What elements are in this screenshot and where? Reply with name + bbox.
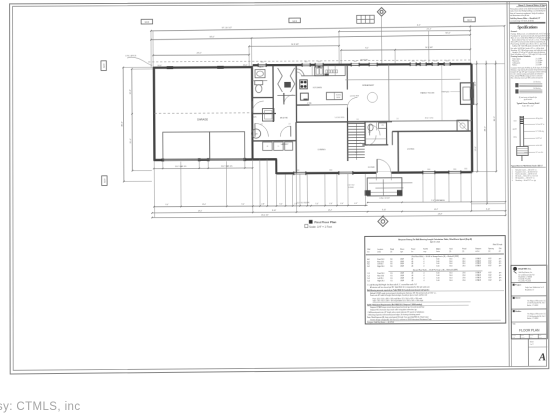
svg-text:6/12: 6/12 (488, 260, 491, 262)
svg-text:50'-0": 50'-0" (445, 33, 451, 35)
svg-text:9'-0": 9'-0" (241, 204, 245, 206)
svg-text:2 x 4 SPF: 2 x 4 SPF (536, 58, 542, 60)
stair west wall (347, 122, 349, 161)
svg-text:yes: yes (499, 263, 502, 265)
svg-text:D-1: D-1 (367, 278, 370, 280)
svg-text:48: 48 (411, 275, 413, 277)
svg-text:21'-4": 21'-4" (130, 138, 132, 143)
svg-text:WJS: WJS (512, 337, 515, 339)
svg-text:Spacing: Spacing (488, 248, 494, 250)
grid tag box (141, 19, 153, 24)
svg-text:16.0: 16.0 (449, 266, 452, 268)
svg-text:yes: yes (499, 272, 502, 274)
first floor plan caption (309, 220, 313, 224)
svg-text:24.0: 24.0 (462, 261, 465, 263)
svg-text:A: A (538, 352, 546, 363)
powder east closet wall (391, 131, 393, 145)
svg-text:21'-1": 21'-1" (427, 29, 432, 31)
svg-text:Panel: Panel (411, 249, 416, 251)
svg-text:14.0: 14.0 (449, 275, 452, 277)
svg-text:14.0: 14.0 (449, 280, 452, 282)
svg-text:4/7/04: 4/7/04 (521, 337, 525, 339)
living corner cabinet (457, 120, 468, 131)
svg-text:D-2: D-2 (367, 280, 370, 282)
svg-text:Reqd: Reqd (390, 249, 394, 251)
powder door arc 2 (370, 125, 381, 136)
svg-text:4'-1": 4'-1" (417, 25, 421, 27)
bottom dimension line second (152, 211, 505, 213)
svg-text:KITCHEN: KITCHEN (313, 87, 322, 89)
svg-text:yes: yes (499, 277, 502, 279)
kitchen family divider stub (346, 65, 348, 90)
kitchen hall wall (296, 104, 309, 106)
top wall windows (258, 64, 266, 66)
svg-text:Scale: 3/4" = 1'-0": Scale: 3/4" = 1'-0" (522, 106, 534, 108)
svg-text:1 of 7: 1 of 7 (530, 344, 534, 346)
svg-text:WSP: WSP (400, 275, 403, 277)
bottom dimension line first (154, 205, 367, 206)
svg-text:2 x 8 SPF: 2 x 8 SPF (536, 64, 542, 66)
counter tile marks (326, 70, 338, 73)
stair east wall (364, 122, 366, 145)
fireplace leader (450, 91, 460, 93)
svg-text:20.0: 20.0 (462, 272, 465, 274)
wall section leaders (524, 117, 535, 119)
svg-text:2 x 10 SPF: 2 x 10 SPF (536, 60, 543, 62)
svg-text:8'-10": 8'-10" (272, 210, 277, 212)
closet arcs hall (347, 97, 357, 107)
svg-text:BREAKFAST: BREAKFAST (362, 84, 375, 87)
kitchen island work desk (326, 92, 342, 99)
svg-text:2-6: 2-6 (289, 123, 291, 125)
svg-text:gyp bd: gyp bd (513, 129, 517, 131)
overhang dimension line (368, 201, 506, 204)
living north wall (392, 130, 472, 132)
dimension line third tier center (249, 45, 339, 48)
svg-text:3050: 3050 (354, 61, 357, 63)
svg-text:9'-0": 9'-0" (165, 204, 169, 206)
title info cells (519, 334, 521, 338)
bath bottom wall (252, 97, 273, 99)
dimension line second tier (151, 35, 470, 40)
dimension line right wing (339, 30, 470, 33)
svg-text:20.0: 20.0 (462, 275, 465, 277)
svg-text:6.5: 6.5 (390, 275, 392, 277)
svg-text:34'-0": 34'-0" (209, 36, 215, 38)
svg-text:10'-2": 10'-2" (475, 81, 477, 86)
svg-text:14'-2": 14'-2" (328, 209, 333, 211)
closet shelf wall (277, 94, 295, 96)
svg-text:6.5: 6.5 (390, 278, 392, 280)
owner block (513, 297, 515, 299)
svg-text:8.0: 8.0 (390, 259, 392, 261)
svg-text:R-19: R-19 (514, 121, 517, 123)
bracing calculation table (365, 236, 506, 324)
kitchen counter (301, 75, 345, 77)
mud room door arc 2 (280, 126, 291, 137)
svg-text:6/12: 6/12 (488, 258, 491, 260)
svg-text:len: len (411, 251, 413, 253)
svg-text:17'-6": 17'-6" (475, 146, 477, 151)
bath shelf line (252, 80, 267, 82)
garage stall rect left (163, 132, 210, 160)
svg-text:C-2: C-2 (367, 275, 370, 277)
pantry door arc (284, 95, 294, 105)
svg-text:36'-0": 36'-0" (121, 121, 123, 127)
house right wall (470, 64, 473, 172)
svg-text:3050: 3050 (412, 60, 415, 62)
svg-text:yes: yes (499, 258, 502, 260)
svg-text:LIN: LIN (381, 125, 383, 127)
hall south wall (252, 112, 276, 114)
breakfast table (367, 92, 377, 102)
marker leader line (381, 16, 383, 64)
svg-text:FOYER: FOYER (368, 167, 375, 169)
left vertical dimension line inner (131, 69, 134, 171)
laundry to front wall jog (275, 159, 277, 174)
svg-text:1.00: 1.00 (436, 263, 439, 265)
hall north wall (348, 121, 392, 123)
svg-text:3050: 3050 (318, 61, 321, 63)
svg-text:34C8: 34C8 (104, 179, 106, 183)
svg-text:Specifications: Specifications (517, 25, 538, 29)
svg-text:y/n: y/n (499, 250, 501, 252)
svg-text:DINING: DINING (318, 149, 326, 151)
laundry tub (262, 109, 274, 122)
svg-text:Brookfield, CT 06804: Brookfield, CT 06804 (518, 276, 532, 278)
svg-text:1.00: 1.00 (436, 258, 439, 260)
svg-text:2 x 8 SPF: 2 x 8 SPF (536, 62, 542, 64)
svg-text:2-6: 2-6 (397, 118, 399, 120)
bottom dimension line third (152, 215, 505, 217)
svg-text:FLOOR PLAN: FLOOR PLAN (519, 328, 540, 332)
project block (513, 284, 515, 286)
svg-text:Wind 110 mph: Wind 110 mph (493, 244, 503, 246)
svg-text:Chk: Chk (499, 248, 502, 250)
right vertical dimension line A (476, 61, 479, 172)
front door opening (376, 172, 391, 174)
svg-text:6'-0 X 6'-8 SLIDER: 6'-0 X 6'-8 SLIDER (297, 202, 311, 204)
refrigerator (300, 93, 308, 100)
column separator line (507, 1, 509, 366)
svg-text:6.5: 6.5 (390, 273, 392, 275)
svg-text:48: 48 (411, 278, 413, 280)
svg-text:6'-2": 6'-2" (354, 203, 358, 205)
svg-text:6'-10": 6'-10" (486, 208, 491, 210)
front stoop (367, 178, 402, 196)
svg-text:Job: Job (539, 335, 541, 337)
svg-text:CL: CL (360, 142, 362, 144)
range (300, 80, 308, 89)
svg-text:14.0: 14.0 (449, 277, 452, 279)
right vertical dimension line B (485, 61, 488, 204)
svg-text:48: 48 (411, 280, 413, 282)
right extension lines (470, 63, 504, 65)
dimension line third tier garage (153, 54, 249, 57)
grid tag box (289, 18, 301, 23)
svg-text:GARAGE: GARAGE (197, 117, 208, 121)
powder fixtures (368, 124, 373, 131)
svg-text:2-8: 2-8 (357, 119, 359, 121)
svg-text:Scale: Scale (530, 335, 533, 337)
svg-text:24'-0": 24'-0" (197, 53, 202, 55)
svg-text:3050: 3050 (422, 60, 425, 62)
svg-text:6.5: 6.5 (390, 280, 392, 282)
svg-text:General:: General: (511, 31, 518, 33)
front porch roof lines (369, 182, 412, 184)
svg-text:Slabs: 4" conc. w/ 6x6 W1.4 WW: Slabs: 4" conc. w/ 6x6 W1.4 WWM over 6 m… (511, 37, 550, 39)
svg-text:6/12: 6/12 (488, 275, 491, 277)
svg-text:WSP: WSP (400, 266, 403, 268)
svg-text:24.0: 24.0 (462, 265, 465, 267)
svg-text:14'-8 3/4": 14'-8 3/4" (425, 47, 433, 49)
bath door arc (252, 101, 264, 113)
stoop posts (365, 190, 371, 195)
svg-text:MUD RM.: MUD RM. (280, 117, 288, 119)
svg-text:WSP: WSP (400, 273, 403, 275)
builder block (513, 310, 515, 312)
svg-text:1.00: 1.00 (436, 280, 439, 282)
bifold closet doors (278, 68, 295, 92)
svg-text:3050: 3050 (464, 168, 467, 170)
svg-text:48: 48 (411, 273, 413, 275)
front wall windows (294, 172, 306, 174)
svg-text:Simpson Strong-Tie Wall-Bracin: Simpson Strong-Tie Wall-Bracing Length C… (398, 238, 472, 241)
grid tag box (464, 17, 476, 22)
foyer east wall (397, 131, 399, 172)
svg-text:Simpson: Simpson (475, 248, 481, 250)
right vertical dimension line C (495, 61, 498, 172)
garage door dimension line (154, 167, 253, 170)
svg-text:Scale: 1/4" = 1 Foot: Scale: 1/4" = 1 Foot (309, 225, 332, 229)
svg-text:8.0: 8.0 (390, 266, 392, 268)
svg-text:C-1: C-1 (367, 273, 370, 275)
svg-text:6/12: 6/12 (488, 272, 491, 274)
garage right wall (251, 66, 254, 159)
svg-text:Gold Key Homes, Inc.: Gold Key Homes, Inc. (518, 272, 533, 274)
interior wall bath-mud (272, 66, 274, 122)
washer dryer (263, 142, 273, 150)
svg-text:15'-0": 15'-0" (202, 204, 207, 206)
svg-text:WSP: WSP (400, 261, 403, 263)
dining west wall (295, 122, 297, 173)
family closet line (441, 65, 443, 120)
svg-text:34C8: 34C8 (292, 21, 297, 23)
bath sink (255, 70, 265, 78)
svg-text:26'-0": 26'-0" (494, 116, 496, 121)
front door swing arc (377, 159, 391, 173)
svg-text:3050: 3050 (261, 61, 264, 63)
kitchen sink (315, 67, 324, 76)
svg-text:B-2: B-2 (367, 266, 370, 268)
svg-text:6'-10": 6'-10" (382, 209, 387, 211)
svg-text:6/12: 6/12 (488, 265, 491, 267)
svg-text:14'-8 3/4": 14'-8 3/4" (291, 44, 299, 46)
svg-text:20.0: 20.0 (462, 277, 465, 279)
svg-text:48: 48 (411, 261, 413, 263)
left grid tag lower (102, 176, 107, 186)
svg-text:(wall): (wall) (377, 251, 381, 253)
svg-text:16.0: 16.0 (449, 258, 452, 260)
svg-text:48: 48 (411, 259, 413, 261)
svg-text:3050: 3050 (453, 169, 456, 171)
divider bar (510, 22, 546, 24)
svg-text:3050: 3050 (305, 61, 308, 63)
dimension line overall width (151, 26, 505, 31)
svg-text:SLIDER: SLIDER (348, 187, 354, 189)
svg-text:2'-0" OVERHANG: 2'-0" OVERHANG (431, 199, 445, 202)
garage door openings (163, 159, 199, 161)
svg-text:34C8: 34C8 (467, 20, 472, 22)
svg-text:Fax (203) 775-0001: Fax (203) 775-0001 (518, 281, 531, 283)
svg-text:34C8: 34C8 (145, 22, 150, 24)
deck steps detail (357, 15, 375, 23)
watermark (0, 401, 80, 413)
svg-text:Drawn: Drawn (512, 335, 516, 337)
svg-text:0404: 0404 (539, 337, 542, 339)
breakfast family rail line (345, 78, 460, 81)
corner framing detail (515, 83, 518, 87)
svg-text:3050: 3050 (296, 170, 299, 172)
bottom extension lines (153, 161, 155, 218)
svg-text:1.00: 1.00 (436, 266, 439, 268)
svg-text:34C8: 34C8 (104, 64, 106, 68)
left grid tag upper (101, 61, 106, 71)
interior wall closet (295, 66, 297, 122)
bath toilet (255, 81, 263, 85)
svg-text:3050: 3050 (434, 60, 437, 62)
svg-text:Brookfield, CT: Brookfield, CT (525, 289, 534, 291)
svg-text:24'-0": 24'-0" (198, 210, 203, 212)
notes column left edge (509, 1, 511, 366)
svg-text:yes: yes (499, 260, 502, 262)
svg-text:WSP: WSP (400, 259, 403, 261)
dimension line third tier right (341, 48, 470, 51)
roof overhang dashed line (148, 60, 471, 62)
svg-text:2x6 PT sill: 2x6 PT sill (536, 138, 543, 140)
dining north wall (296, 121, 347, 123)
svg-text:3050: 3050 (446, 60, 449, 62)
svg-text:(2) 2X10 HDR: (2) 2X10 HDR (350, 95, 359, 97)
svg-text:yes: yes (499, 279, 502, 281)
svg-text:6/12: 6/12 (488, 279, 491, 281)
svg-text:14.0: 14.0 (449, 273, 452, 275)
garage bottom wall (154, 158, 277, 161)
svg-text:4'-0": 4'-0" (340, 203, 344, 205)
svg-text:48: 48 (411, 263, 413, 265)
svg-text:48: 48 (411, 266, 413, 268)
svg-text:28'-0": 28'-0" (484, 126, 486, 131)
garage left wall (153, 67, 156, 161)
svg-text:2-6: 2-6 (261, 124, 263, 126)
svg-text:First Floor Plan: First Floor Plan (314, 220, 336, 224)
svg-text:8.0: 8.0 (390, 263, 392, 265)
section marker diamond top (377, 8, 386, 17)
svg-text:8'-2": 8'-2" (365, 48, 369, 50)
garage beam dashed (154, 112, 251, 115)
svg-text:2x4 blocking: 2x4 blocking (533, 82, 541, 84)
svg-text:WORK: WORK (336, 95, 341, 97)
svg-text:2'-8": 2'-8" (261, 204, 265, 206)
svg-text:57'-10 1/2": 57'-10 1/2" (222, 27, 233, 29)
mud room door arc 1 (255, 123, 268, 136)
svg-text:5'-4": 5'-4" (315, 203, 319, 205)
svg-text:8.0: 8.0 (390, 261, 392, 263)
left vertical dimension line outer (122, 68, 125, 182)
svg-text:10" conc fdn: 10" conc fdn (536, 152, 543, 154)
svg-text:Owner:: Owner: (515, 298, 521, 300)
svg-text:1.00: 1.00 (436, 273, 439, 275)
svg-text:20.0: 20.0 (462, 280, 465, 282)
svg-text:24.0: 24.0 (462, 263, 465, 265)
svg-text:segs: segs (423, 251, 426, 253)
svg-text:DESK: DESK (336, 97, 340, 99)
svg-text:14 Candlewood Lake Rd: 14 Candlewood Lake Rd (518, 274, 534, 276)
sheet number block (527, 339, 529, 366)
svg-text:WSP: WSP (400, 263, 403, 265)
svg-text:16.0: 16.0 (449, 263, 452, 265)
svg-text:14'-2": 14'-2" (434, 209, 439, 211)
powder south wall (362, 144, 388, 146)
garage stall rect right (210, 132, 245, 160)
svg-text:LIVING: LIVING (407, 149, 414, 151)
section marker diamond bottom (378, 216, 388, 226)
left extension lines (123, 66, 153, 68)
svg-text:yes: yes (499, 265, 502, 267)
front wall (276, 172, 472, 173)
svg-text:4'-6 X 6'-8: 4'-6 X 6'-8 (348, 185, 355, 187)
leader curve top left (127, 57, 152, 65)
svg-text:2'-8": 2'-8" (294, 204, 298, 206)
water heater (251, 129, 260, 138)
svg-text:4'-6": 4'-6" (329, 203, 333, 205)
svg-text:3050: 3050 (427, 169, 430, 171)
svg-text:WSP: WSP (400, 280, 403, 282)
svg-text:46'-4 1/2": 46'-4 1/2" (261, 214, 269, 216)
fireplace (460, 83, 473, 105)
house top wall (253, 64, 472, 65)
svg-text:1.00: 1.00 (436, 277, 439, 279)
svg-text:GOLD KEY, Inc.: GOLD KEY, Inc. (518, 269, 532, 271)
svg-text:1.00: 1.00 (436, 261, 439, 263)
breakfast kitchen divider line (388, 64, 390, 121)
svg-text:B-1: B-1 (367, 264, 370, 266)
svg-text:24.0: 24.0 (462, 258, 465, 260)
svg-text:5-0 CSD OPNG: 5-0 CSD OPNG (335, 117, 344, 119)
mud laundry divider wall (252, 140, 296, 142)
garage top wall (153, 66, 252, 69)
svg-text:6/12: 6/12 (488, 263, 491, 265)
firm logo (513, 267, 517, 271)
powder room door arc (366, 135, 376, 145)
svg-text:CONC. STOOP: CONC. STOOP (379, 198, 389, 200)
svg-text:yes: yes (499, 275, 502, 277)
svg-text:6/12: 6/12 (488, 277, 491, 279)
svg-text:16.0: 16.0 (449, 261, 452, 263)
living opening upper edge (348, 120, 472, 123)
svg-text:18'-0 X 13'-8: 18'-0 X 13'-8 (425, 118, 434, 120)
svg-text:WSP: WSP (400, 278, 403, 280)
svg-text:Tel (203) 775-0000: Tel (203) 775-0000 (518, 278, 530, 280)
svg-text:16'-8": 16'-8" (130, 89, 132, 94)
svg-text:anchor: anchor (475, 251, 480, 253)
svg-text:3050: 3050 (329, 169, 332, 171)
wall section detail (519, 116, 521, 146)
powder east wall (386, 122, 388, 145)
wall section footing (517, 146, 529, 155)
top extension lines (152, 31, 154, 68)
svg-text:line: line (367, 251, 369, 253)
